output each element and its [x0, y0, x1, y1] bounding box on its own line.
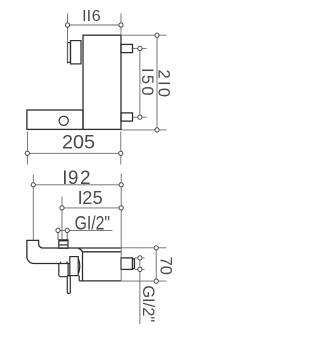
dimension 70 [121, 248, 166, 281]
svg-text:205: 205 [62, 132, 95, 154]
dimension 116 [68, 14, 122, 64]
wire: faucet body (plan view) [83, 35, 121, 129]
wire: spout connector flange (plan) [71, 41, 82, 64]
dimension 150 [133, 48, 147, 117]
svg-text:II6: II6 [82, 8, 101, 25]
wire: bottom inlet nub (plan) [121, 113, 133, 121]
transistor-like handle lever [67, 276, 70, 294]
wire: wall plate (plan) [27, 110, 83, 129]
node A: plate hole [59, 116, 68, 125]
wire: body barrel (front) [78, 248, 121, 281]
svg-text:I25: I25 [78, 188, 103, 208]
wire: under-spout outlet box [59, 264, 68, 277]
dimension 205 [27, 132, 120, 165]
dimension G1/2 right [135, 258, 145, 324]
svg-text:I92: I92 [62, 168, 90, 189]
wire: cartridge dome arc [78, 258, 80, 274]
svg-text:70: 70 [156, 257, 174, 275]
wire: inlet thread lines [57, 230, 59, 239]
dimension 210 [121, 35, 167, 130]
dimension 125 [62, 197, 121, 240]
dimension G1/2 top [56, 229, 113, 231]
svg-text:GI/2": GI/2" [139, 285, 157, 322]
svg-text:GI/2": GI/2" [75, 212, 110, 234]
svg-text:I50: I50 [138, 68, 156, 98]
wire: top inlet nub (plan) [121, 44, 133, 52]
dimension 192 [33, 174, 121, 281]
wire: spout connector cap (plan) [68, 43, 71, 63]
wire: spout profile [39, 245, 121, 249]
wire: inlet fitting box [59, 240, 68, 249]
wire: right wall nub (front) [121, 258, 133, 270]
wire: escutcheon flange (front) [70, 257, 78, 276]
wire: flange lower step [78, 276, 80, 281]
